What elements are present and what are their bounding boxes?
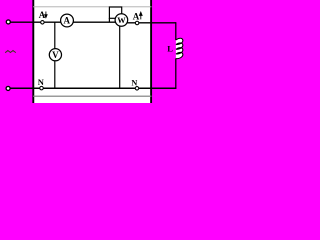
- svg-text:A: A: [64, 16, 71, 26]
- voltmeter V1: [49, 49, 61, 61]
- wire: right vertical load wire lower segment: [175, 58, 177, 88]
- node N-right terminal: [135, 87, 139, 91]
- inductor L coil: [176, 38, 183, 58]
- svg-text:W: W: [117, 16, 126, 25]
- wattmeter voltage-coil square: [109, 7, 121, 18]
- wire: voltmeter branch vertical: [54, 22, 56, 88]
- node A-out terminal: [135, 21, 139, 25]
- wattmeter square left lead down to wire: [108, 18, 110, 22]
- panel white strip: [33, 0, 152, 103]
- supply terminal neutral (left bottom): [6, 86, 10, 90]
- panel right border: [150, 0, 152, 103]
- node A-in terminal: [41, 21, 45, 25]
- node N-left terminal: [40, 86, 44, 90]
- wire: top phase wire from supply terminal to load corner: [11, 21, 121, 23]
- wire: wattmeter voltage lead down: [119, 27, 121, 89]
- wattmeter W1: [115, 14, 128, 27]
- panel top border: [33, 6, 152, 8]
- svg-text:L: L: [167, 44, 173, 54]
- arrow down at A-in: [45, 12, 47, 18]
- wire: bottom neutral wire: [10, 87, 176, 89]
- ammeter A1: [61, 14, 74, 27]
- svg-text:V: V: [52, 50, 59, 60]
- arrow up at A-out: [140, 12, 143, 19]
- supply terminal phase (left top): [6, 20, 10, 24]
- AC source squiggle mark: [5, 51, 16, 53]
- wire: top phase wire right segment: [118, 22, 176, 24]
- panel left border: [32, 0, 34, 103]
- panel bottom border: [33, 95, 152, 97]
- svg-text:A: A: [133, 11, 140, 21]
- svg-text:N: N: [38, 77, 45, 87]
- wire: right vertical load wire upper segment: [175, 22, 177, 40]
- svg-text:N: N: [131, 79, 137, 88]
